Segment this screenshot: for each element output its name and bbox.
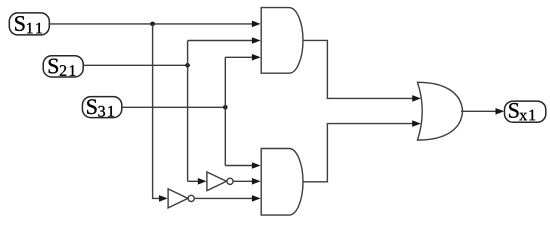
- AND gate U1: [261, 8, 303, 74]
- arrowhead AND U2 input 2: [252, 178, 261, 185]
- label S31: [87, 99, 114, 116]
- OR gate U3: [418, 82, 463, 140]
- wire vertical S21 net: [187, 41, 189, 182]
- arrowhead AND U1 input 1: [252, 21, 261, 28]
- arrowhead OR U3 input 1: [412, 95, 421, 102]
- wire OR U3 output to Sx1: [461, 110, 496, 112]
- arrowhead OR U3 output to Sx1: [496, 108, 505, 115]
- node S31 input label box: [82, 97, 121, 118]
- arrowhead inverter U4 input: [159, 195, 168, 202]
- wire S31 to AND U1 input 3: [225, 56, 252, 58]
- wire S31 to junction: [122, 106, 226, 108]
- arrowhead inverter U5 input: [198, 178, 207, 185]
- wire vertical S11 net down to inverter U4: [153, 24, 160, 199]
- wire inverter U5 output to AND U2 input 2: [233, 180, 252, 182]
- AND gate U2: [261, 149, 303, 216]
- junction S21 net: [185, 63, 190, 68]
- junction S11 net: [150, 22, 155, 27]
- inverter U4: [168, 189, 188, 208]
- wire AND U2 output to OR U3 input 2: [303, 124, 413, 182]
- label Sx1: [509, 103, 535, 120]
- junction S31 net: [223, 105, 228, 110]
- wire S11 to AND U1 input 1: [49, 23, 252, 25]
- wire S21 to inverter U5 input: [188, 180, 199, 182]
- node Sx1 output label box: [505, 101, 546, 122]
- label S21: [49, 59, 76, 76]
- inverter U5 bubble: [227, 178, 233, 184]
- wire vertical S31 net: [224, 57, 226, 165]
- arrowhead AND U1 input 3: [252, 54, 261, 61]
- inverter U4 bubble: [188, 195, 194, 201]
- node S21 input label box: [43, 56, 83, 77]
- wire S21 to junction: [83, 64, 187, 66]
- wire inverter U4 output to AND U2 input 3: [195, 197, 253, 199]
- arrowhead AND U1 input 2: [252, 37, 261, 44]
- arrowhead AND U2 input 1: [252, 162, 261, 169]
- arrowhead AND U2 input 3: [252, 195, 261, 202]
- label S11: [15, 16, 42, 33]
- arrowhead OR U3 input 2: [412, 120, 421, 127]
- wire S31 to AND U2 input 1: [225, 165, 252, 167]
- wire AND U1 output to OR U3 input 1: [303, 40, 413, 98]
- inverter U5: [207, 172, 227, 191]
- wire S21 to AND U1 input 2: [188, 40, 253, 42]
- node S11 input label box: [9, 13, 49, 35]
